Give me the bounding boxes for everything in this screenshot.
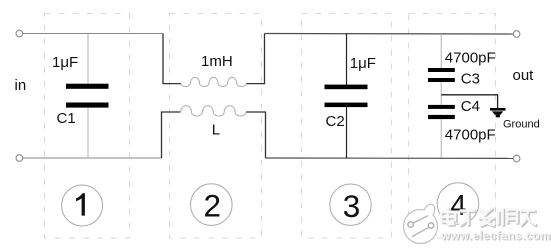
svg-text:4700pF: 4700pF xyxy=(445,50,496,67)
section box 3 (dashed) xyxy=(302,14,392,239)
terminal out top xyxy=(513,31,520,38)
wire C3-C4 midpoint xyxy=(440,82,442,105)
node 3 circle xyxy=(330,184,371,225)
wire bottom rail right xyxy=(266,157,514,159)
inductor L bottom winding xyxy=(181,106,246,116)
svg-text:Ground: Ground xyxy=(503,119,540,131)
wire to ground xyxy=(441,95,497,108)
terminal in bottom xyxy=(16,155,23,162)
ground symbol xyxy=(490,108,506,117)
section box 2 (dashed) xyxy=(170,14,262,239)
svg-text:www.elecfans.com: www.elecfans.com xyxy=(440,230,551,243)
wire bottom rail left xyxy=(23,157,162,159)
wire step from top coil (right) xyxy=(246,34,264,84)
capacitor C4 plates xyxy=(428,105,455,119)
capacitor C4 bottom tap wire xyxy=(440,119,442,158)
capacitor C2 plates xyxy=(325,85,368,108)
capacitor C2 top tap wire xyxy=(346,34,348,85)
svg-text:C4: C4 xyxy=(461,98,480,115)
svg-text:out: out xyxy=(513,67,535,84)
capacitor C2 bottom tap wire xyxy=(346,107,348,158)
svg-text:1μF: 1μF xyxy=(52,54,78,71)
svg-text:3: 3 xyxy=(343,188,361,224)
capacitor C1 plates xyxy=(66,84,109,108)
wire top rail right xyxy=(265,33,514,36)
svg-text:in: in xyxy=(15,77,27,94)
terminal out bottom xyxy=(513,155,520,162)
svg-text:L: L xyxy=(212,122,220,139)
svg-text:C1: C1 xyxy=(57,110,76,127)
svg-text:2: 2 xyxy=(204,188,222,224)
watermark logo xyxy=(404,204,438,243)
svg-text:1mH: 1mH xyxy=(201,53,233,70)
node 4 circle xyxy=(437,183,479,225)
wire step to bottom coil (left) xyxy=(162,112,181,158)
wire step to top coil (left) xyxy=(163,34,181,84)
capacitor C1 bottom tap wire xyxy=(87,108,89,158)
capacitor C3 top tap wire xyxy=(440,34,442,68)
wire step from bottom coil (right) xyxy=(246,112,266,158)
wire top rail left xyxy=(23,33,163,35)
svg-text:C3: C3 xyxy=(461,71,480,88)
svg-text:1μF: 1μF xyxy=(350,55,376,72)
capacitor C3 plates xyxy=(428,68,455,82)
section box 4 (dashed) xyxy=(409,14,496,239)
svg-text:C2: C2 xyxy=(326,113,345,130)
svg-text:4700pF: 4700pF xyxy=(445,127,496,144)
node 2 circle xyxy=(191,184,233,226)
section box 1 (dashed) xyxy=(45,14,130,239)
capacitor C1 top tap wire xyxy=(87,34,89,84)
node 1 circle xyxy=(62,185,103,226)
terminal in top xyxy=(16,30,23,37)
inductor L top winding xyxy=(181,77,246,86)
